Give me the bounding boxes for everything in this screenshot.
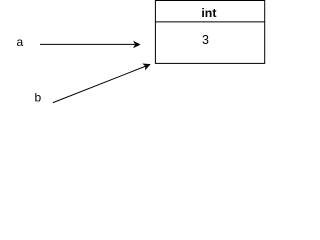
svg-text:3: 3 bbox=[202, 33, 209, 47]
arrow a: wire bbox=[40, 43, 136, 45]
header divider line bbox=[155, 21, 264, 23]
variable label b bbox=[35, 90, 42, 104]
variable label a bbox=[17, 35, 24, 49]
type label int bbox=[201, 6, 216, 20]
svg-text:int: int bbox=[201, 6, 216, 20]
arrow a: arrowhead bbox=[133, 41, 141, 49]
arrow b: wire bbox=[53, 66, 146, 102]
arrow b: arrowhead bbox=[142, 63, 150, 70]
value label 3 bbox=[202, 33, 209, 47]
svg-text:a: a bbox=[17, 35, 24, 49]
int object box bbox=[155, 1, 264, 64]
svg-text:b: b bbox=[35, 90, 42, 104]
